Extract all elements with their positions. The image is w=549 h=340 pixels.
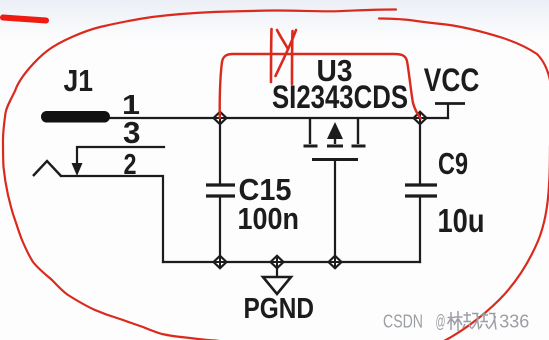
svg-text:CSDN: CSDN: [383, 311, 423, 332]
transistor U3 body-diode arrow: [327, 122, 343, 139]
body stub: [334, 136, 336, 144]
svg-text:100n: 100n: [238, 202, 300, 236]
watermark hanzi shu 1 drawn as strokes: [463, 312, 479, 330]
watermark hanzi shu 2 drawn as strokes: [480, 312, 496, 330]
red annotation: crossed-out bypass wire: [220, 54, 421, 119]
watermark CSDN text: [383, 311, 529, 332]
svg-text:10u: 10u: [438, 202, 485, 239]
svg-text:@: @: [436, 311, 446, 332]
svg-text:2: 2: [124, 149, 137, 181]
wire VCC stub: [447, 104, 449, 118]
capacitor C9 plates: [405, 185, 437, 196]
drain stub: [309, 118, 311, 144]
watermark hanzi lin drawn as strokes: [448, 311, 463, 331]
wire U3 gate to ground rail: [334, 160, 336, 262]
gate line: [312, 158, 358, 161]
VCC power bar: [435, 102, 465, 105]
red annotation: loop overlap stroke top-right: [379, 19, 549, 143]
wire C9 branch lower: [419, 197, 421, 262]
wire C9 branch upper: [419, 118, 421, 184]
connector J1 pin1 center-pin bar: [41, 111, 110, 123]
svg-text:PGND: PGND: [244, 292, 315, 324]
ground PGND stem: [276, 262, 278, 277]
wire ground rail: [163, 261, 420, 263]
svg-text:C9: C9: [438, 147, 468, 181]
connector J1 pin3 switch arrowhead: [72, 163, 83, 176]
connector J1 pin2 sleeve chevron: [33, 161, 61, 176]
junction node: ground rail / C15: [214, 256, 227, 268]
wire C15 branch upper: [219, 118, 221, 184]
svg-text:3: 3: [123, 116, 141, 150]
svg-text:336: 336: [499, 311, 529, 332]
red annotation: thick dash top-left: [3, 18, 46, 21]
wire J1 pin2 sleeve to ground rail: [61, 176, 163, 262]
transistor U3 P-MOSFET body: [304, 118, 366, 160]
junction node: main wire / C15 branch: [214, 112, 227, 124]
ground PGND triangle: [263, 277, 291, 294]
svg-text:J1: J1: [64, 64, 94, 98]
red annotation: X cross-out mark: [271, 29, 296, 84]
wire C15 branch lower: [219, 197, 221, 262]
junction node: ground rail / U3 gate: [329, 256, 342, 268]
wire main net J1.1 to VCC: [108, 117, 448, 119]
capacitor C15 plates: [206, 185, 235, 196]
source stub: [357, 118, 359, 144]
svg-text:VCC: VCC: [424, 62, 480, 98]
wire J1 pin3: [77, 147, 164, 166]
junction node: main wire / C9 branch / VCC: [414, 112, 427, 124]
junction node: ground rail / PGND: [271, 256, 284, 268]
